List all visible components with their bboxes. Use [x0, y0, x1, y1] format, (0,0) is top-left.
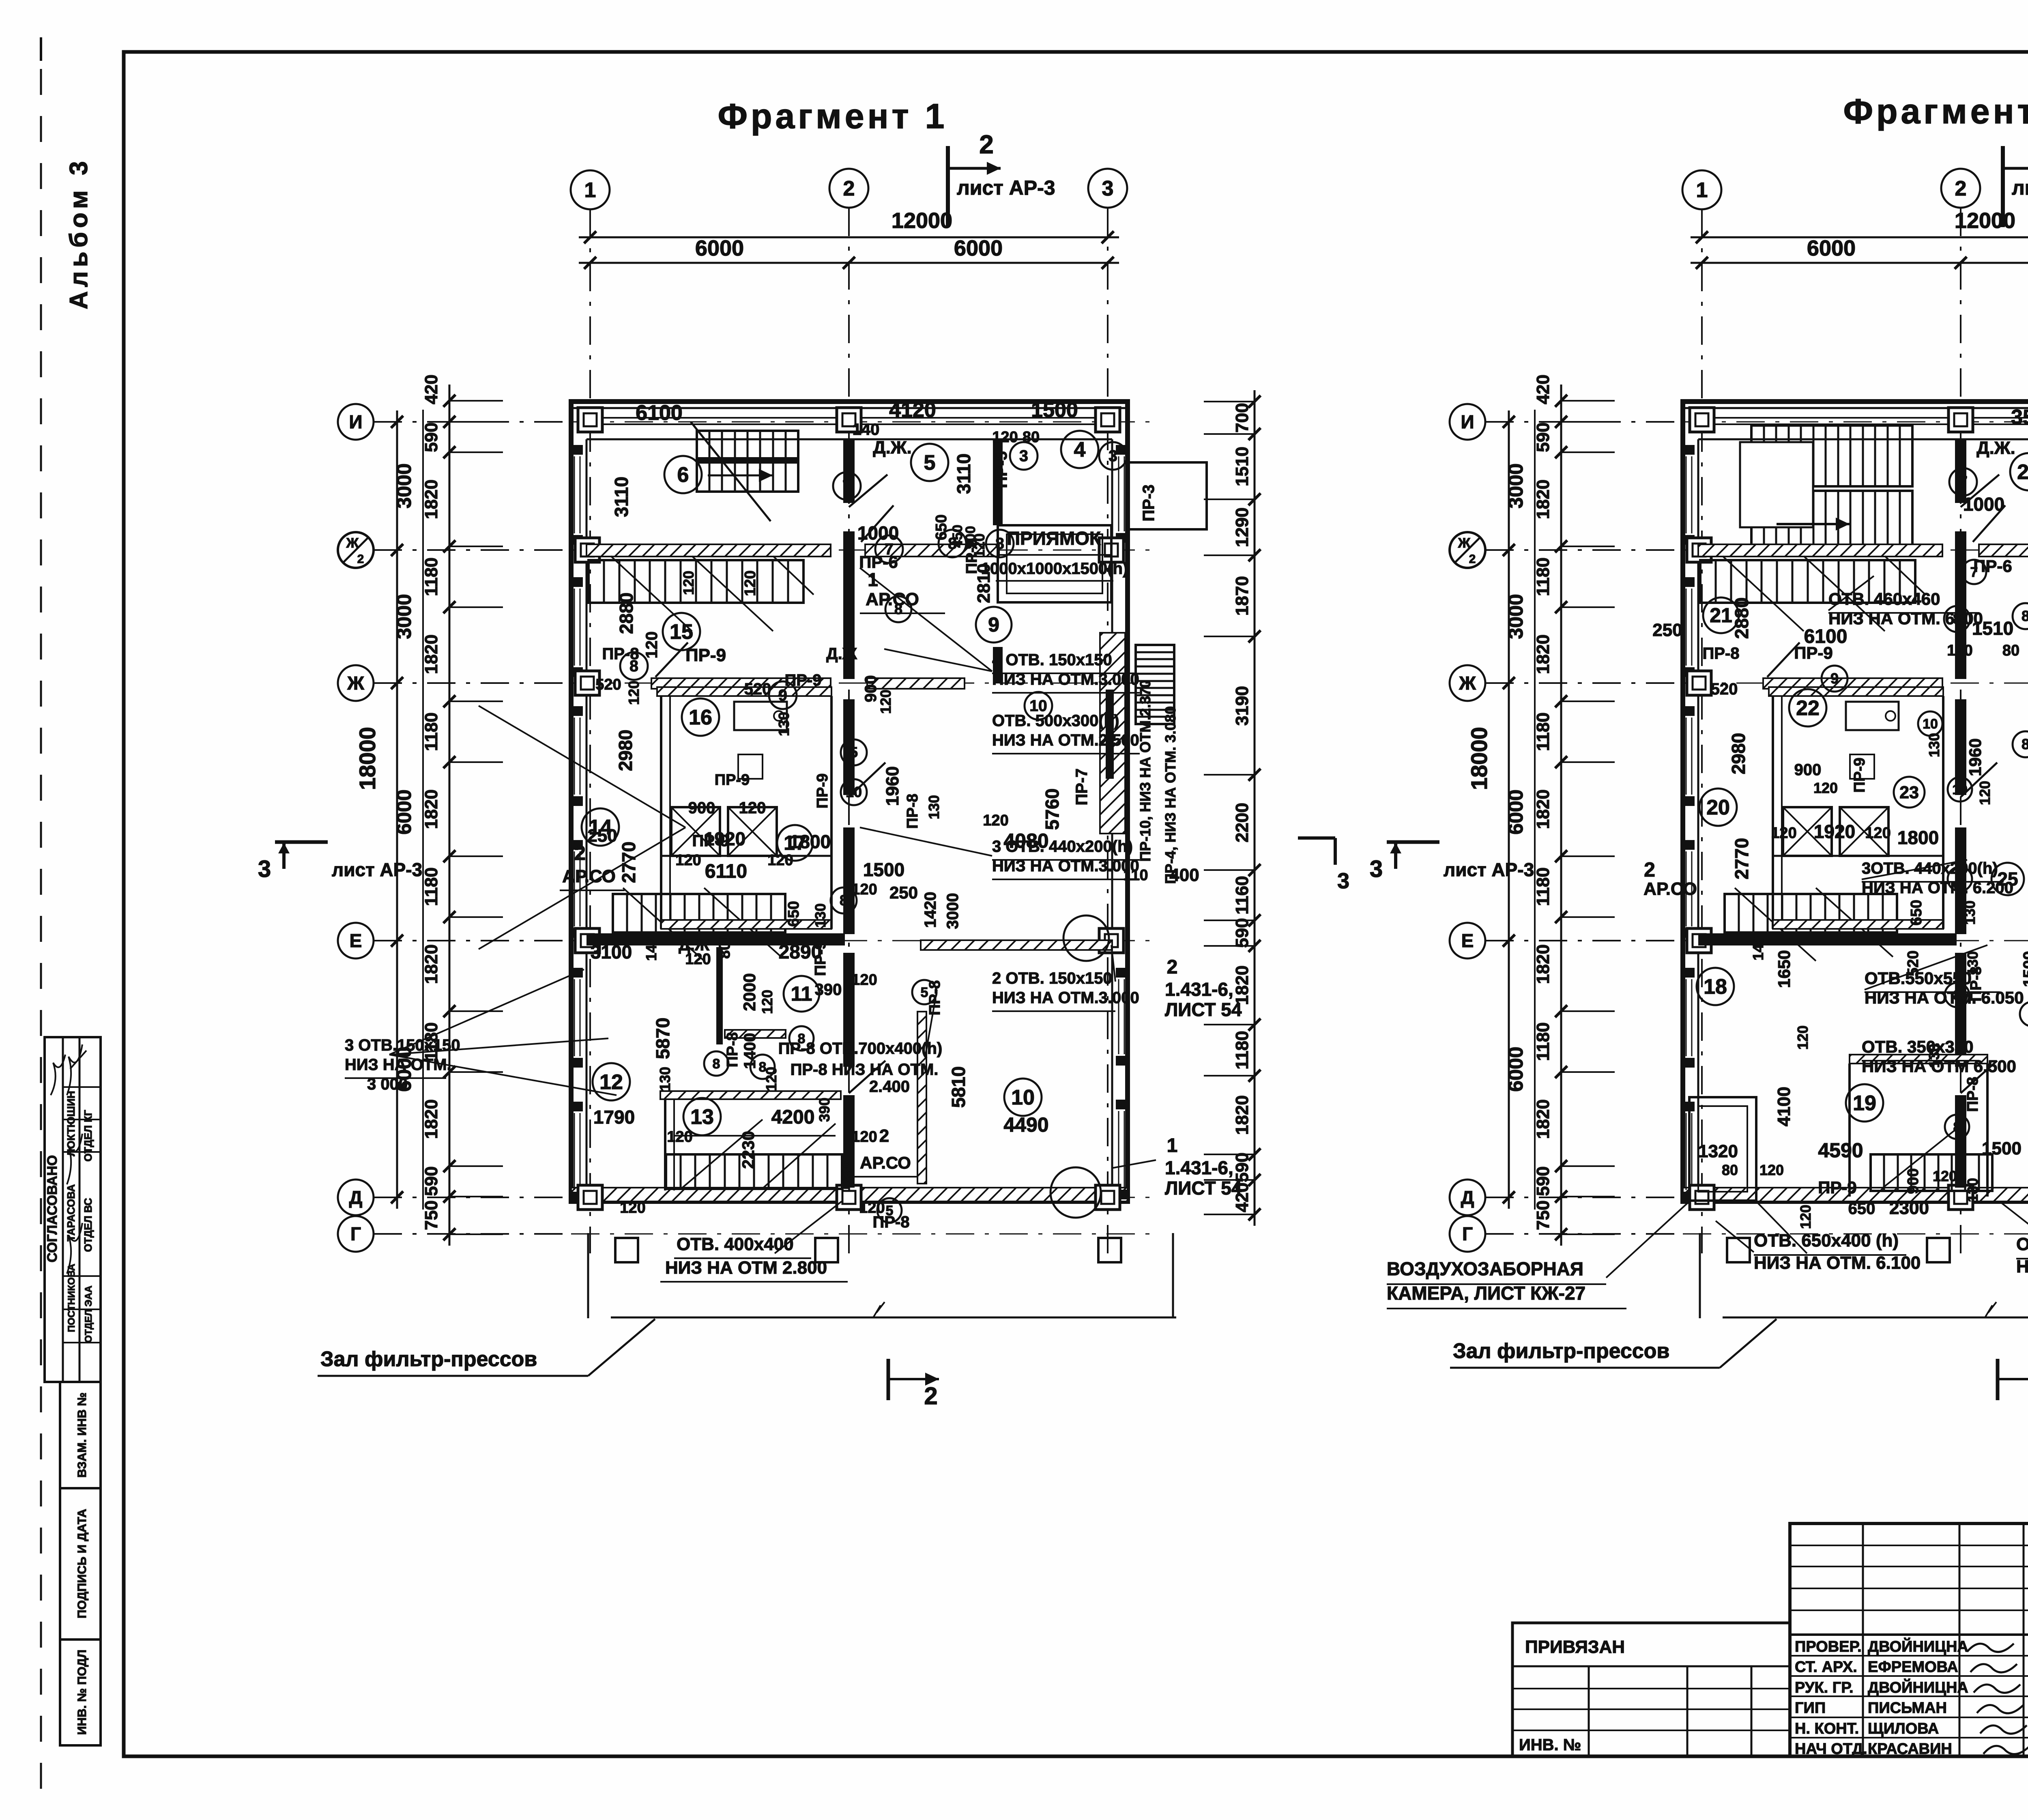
svg-text:8: 8	[713, 1056, 720, 1072]
svg-text:ЕФРЕМОВА: ЕФРЕМОВА	[1868, 1659, 1958, 1676]
room 10 left hatched wall	[917, 1012, 926, 1184]
svg-text:1960: 1960	[1966, 738, 1985, 776]
svg-text:590: 590	[1533, 422, 1553, 452]
svg-text:Ж: Ж	[1458, 535, 1471, 551]
svg-text:590: 590	[421, 422, 441, 452]
svg-text:Г: Г	[1462, 1223, 1473, 1244]
ladder boundary line	[1534, 410, 1536, 1210]
staircase at row Е	[613, 894, 785, 933]
underlines for notes fragment 1	[992, 673, 1136, 674]
svg-text:9: 9	[988, 613, 999, 636]
svg-text:1820: 1820	[1533, 634, 1553, 674]
dimension 12000 (top)	[579, 236, 1119, 239]
svg-text:110: 110	[1123, 867, 1148, 884]
wall row Ж/2 right hatched	[1979, 544, 2028, 557]
svg-text:1870: 1870	[1232, 576, 1252, 616]
svg-text:2770: 2770	[618, 842, 639, 883]
svg-text:3: 3	[1337, 869, 1349, 893]
svg-text:НАЧ ОТД.: НАЧ ОТД.	[1795, 1740, 1867, 1758]
staircase top	[1751, 425, 1912, 486]
svg-text:14: 14	[589, 816, 612, 839]
svg-text:8: 8	[995, 535, 1004, 552]
dimension chain windows/piers (left)	[449, 410, 451, 1246]
grid row circle Д	[338, 1180, 374, 1215]
svg-text:ОТДЕЛ ВС: ОТДЕЛ ВС	[82, 1198, 94, 1252]
staircase at row Е	[1725, 894, 1897, 933]
svg-text:1160: 1160	[1232, 876, 1252, 914]
svg-text:1180: 1180	[421, 867, 441, 906]
svg-text:700: 700	[1232, 403, 1252, 432]
svg-text:250: 250	[889, 883, 918, 902]
svg-text:ПР-7: ПР-7	[1073, 769, 1091, 806]
signature squiggles	[51, 1055, 65, 1095]
sanitary fixture	[734, 702, 787, 730]
title block upper rows (left)	[1790, 1545, 2028, 1546]
svg-text:ПР-3: ПР-3	[1140, 485, 1158, 522]
wall right of room 8	[993, 439, 1003, 525]
canopy vertical stubs	[587, 1233, 589, 1318]
svg-text:1.431-6,: 1.431-6,	[1165, 1157, 1233, 1178]
svg-text:3000: 3000	[1504, 463, 1527, 508]
stamp box ВЗАМ. ИНВ №	[60, 1382, 101, 1488]
svg-text:3: 3	[1109, 447, 1117, 465]
svg-text:24: 24	[2017, 460, 2028, 484]
svg-text:Д.Ж: Д.Ж	[679, 936, 710, 954]
svg-text:140: 140	[643, 937, 660, 961]
dimension chain 3000/3000/6000/6000 (left)	[396, 410, 398, 1209]
title block name rows	[1790, 1655, 2028, 1657]
svg-text:420: 420	[421, 374, 441, 404]
svg-text:10: 10	[1923, 716, 1938, 732]
outer wall rectangle	[571, 402, 1128, 1201]
svg-text:3110: 3110	[611, 477, 632, 517]
leader lines fragment 1	[860, 568, 992, 671]
svg-text:120: 120	[1797, 1205, 1814, 1229]
svg-text:120: 120	[643, 632, 661, 659]
privyazan block	[1512, 1623, 1790, 1756]
svg-text:400: 400	[1169, 865, 1199, 885]
svg-text:130: 130	[1961, 900, 1978, 925]
svg-text:2: 2	[979, 130, 994, 159]
grid row line Е	[1683, 940, 2028, 941]
grid line 2 (dash-dot)	[1960, 208, 1961, 1253]
svg-text:1180: 1180	[1232, 1031, 1252, 1069]
svg-text:20: 20	[1706, 796, 1730, 819]
svg-text:18000: 18000	[354, 727, 380, 790]
svg-text:1820: 1820	[421, 634, 441, 674]
svg-text:2: 2	[357, 552, 364, 566]
svg-text:650: 650	[785, 901, 802, 926]
svg-text:ПР-8: ПР-8	[1964, 1077, 1981, 1112]
section marker 2 (top)	[2001, 146, 2005, 227]
grid circle 1	[1682, 170, 1721, 209]
svg-text:ПР-4, НИЗ НА ОТМ. 3.080: ПР-4, НИЗ НА ОТМ. 3.080	[1162, 706, 1179, 884]
svg-text:ПР-8: ПР-8	[1703, 645, 1740, 662]
svg-text:120: 120	[675, 852, 701, 869]
svg-text:И: И	[349, 411, 362, 432]
ventilation shafts with X	[671, 807, 720, 856]
svg-text:5810: 5810	[948, 1066, 969, 1108]
svg-text:650: 650	[1908, 900, 1925, 925]
svg-text:ПРОВЕР.: ПРОВЕР.	[1795, 1638, 1862, 1655]
svg-text:130: 130	[812, 903, 829, 928]
svg-text:4 ОТВ. 150х150: 4 ОТВ. 150х150	[992, 651, 1112, 669]
svg-text:5: 5	[924, 451, 936, 475]
svg-text:2770: 2770	[1731, 838, 1752, 879]
svg-text:1820: 1820	[421, 1099, 441, 1139]
svg-text:4120: 4120	[889, 398, 936, 422]
svg-text:2 ОТВ. 150х150: 2 ОТВ. 150х150	[992, 969, 1112, 987]
svg-text:10: 10	[1952, 782, 1968, 797]
svg-text:8: 8	[948, 535, 957, 552]
section marker 3 (left)	[1387, 840, 1439, 844]
svg-text:120: 120	[851, 971, 877, 988]
svg-text:4: 4	[1074, 438, 1086, 462]
svg-text:1290: 1290	[1232, 507, 1252, 547]
dimension chain windows/piers (left)	[1560, 410, 1562, 1246]
svg-text:140: 140	[1947, 642, 1972, 659]
svg-text:ТАРАСОВА: ТАРАСОВА	[65, 1184, 77, 1241]
svg-text:16: 16	[689, 706, 712, 729]
canopy line below plan	[1723, 1317, 2028, 1319]
svg-text:ОТДЕЛ КГ: ОТДЕЛ КГ	[82, 1110, 94, 1162]
door swings on grid-2 wall	[849, 475, 887, 507]
svg-text:1500: 1500	[1031, 398, 1078, 422]
svg-text:2200: 2200	[1232, 803, 1252, 842]
svg-text:120: 120	[739, 799, 766, 817]
grid row line И	[571, 421, 1152, 423]
svg-text:1: 1	[584, 178, 596, 202]
svg-text:5760: 5760	[1042, 789, 1063, 830]
svg-text:120: 120	[992, 429, 1018, 446]
svg-text:900: 900	[1794, 761, 1822, 779]
svg-text:140: 140	[1750, 936, 1766, 960]
door swings on grid-2 wall	[1961, 475, 1999, 507]
svg-text:3: 3	[1370, 856, 1383, 882]
fragment 1 room circles	[664, 456, 702, 493]
trim mark top-left	[40, 37, 42, 61]
svg-text:6000: 6000	[695, 236, 744, 260]
svg-text:1180: 1180	[1533, 712, 1553, 751]
svg-text:Д.Ж.: Д.Ж.	[1976, 438, 2015, 458]
svg-text:ЛИСТ 54: ЛИСТ 54	[1165, 999, 1242, 1020]
svg-text:19: 19	[1853, 1092, 1876, 1115]
outer wall inner face	[586, 438, 1112, 440]
canopy vertical stubs	[1699, 1233, 1701, 1318]
svg-text:2980: 2980	[615, 730, 636, 771]
svg-text:1,390: 1,390	[839, 1161, 853, 1191]
svg-text:1820: 1820	[1533, 1099, 1553, 1139]
svg-text:590: 590	[421, 1166, 441, 1196]
svg-text:ПОСТНИКОВА: ПОСТНИКОВА	[66, 1264, 77, 1332]
svg-text:ИНВ. №: ИНВ. №	[1519, 1736, 1581, 1754]
svg-text:80: 80	[2002, 642, 2019, 659]
svg-text:АР.СО: АР.СО	[860, 1153, 911, 1172]
svg-text:ВОЗДУХОЗАБОРНАЯ: ВОЗДУХОЗАБОРНАЯ	[1387, 1258, 1583, 1279]
svg-text:НИЗ НА ОТМ 2.800: НИЗ НА ОТМ 2.800	[665, 1258, 827, 1278]
svg-text:8: 8	[840, 892, 848, 909]
svg-text:7: 7	[842, 477, 851, 495]
svg-text:ПР-9: ПР-9	[715, 771, 750, 789]
svg-text:6100: 6100	[636, 401, 683, 425]
svg-text:ПР-9: ПР-9	[812, 941, 829, 976]
svg-text:6000: 6000	[1807, 236, 1856, 260]
ladder boundary line	[422, 410, 424, 1210]
svg-text:ОТВ. 350х350: ОТВ. 350х350	[1862, 1037, 1974, 1056]
svg-text:3500: 3500	[2011, 406, 2028, 429]
grid row circle Г	[1450, 1216, 1485, 1252]
svg-text:ПР-8: ПР-8	[904, 794, 921, 829]
vozdukhozaborna kamera box bottom-left	[1689, 1097, 1756, 1201]
external stair right	[1136, 645, 1174, 724]
window strips right wall	[1124, 456, 1125, 531]
svg-text:2.400: 2.400	[869, 1078, 910, 1096]
svg-text:900: 900	[688, 799, 715, 817]
svg-text:3100: 3100	[591, 941, 632, 963]
svg-text:520: 520	[1711, 680, 1738, 698]
svg-text:ГИП: ГИП	[1795, 1700, 1826, 1717]
svg-text:лист АР-3: лист АР-3	[1444, 859, 1534, 880]
section marker 3 (right)	[1298, 836, 1335, 840]
wall row Ж hatched	[651, 678, 831, 689]
svg-text:130: 130	[926, 795, 942, 819]
svg-text:ПРИВЯЗАН: ПРИВЯЗАН	[1525, 1637, 1625, 1657]
svg-text:8: 8	[894, 601, 902, 617]
svg-text:3 ОТВ. 440х200(h): 3 ОТВ. 440х200(h)	[992, 838, 1133, 855]
svg-text:120: 120	[742, 570, 759, 596]
svg-text:1.431-6,: 1.431-6,	[1165, 979, 1233, 1000]
svg-text:ПР-9: ПР-9	[785, 671, 822, 689]
svg-text:6110: 6110	[705, 861, 747, 882]
svg-text:НИЗ НА ОТМ. 6.000: НИЗ НА ОТМ. 6.000	[2016, 1257, 2028, 1276]
svg-text:СТ. АРХ.: СТ. АРХ.	[1795, 1659, 1857, 1676]
grid row line И	[1683, 421, 2028, 423]
svg-text:140: 140	[853, 421, 880, 438]
svg-text:7: 7	[885, 541, 894, 558]
svg-text:6: 6	[677, 463, 689, 487]
svg-text:3 ОТВ.150х150: 3 ОТВ.150х150	[345, 1036, 460, 1054]
svg-text:8: 8	[1956, 872, 1964, 887]
svg-text:590: 590	[1533, 1166, 1553, 1196]
grid line 1 (dash-dot)	[1701, 209, 1703, 1253]
svg-text:800: 800	[716, 933, 733, 958]
svg-text:Н. КОНТ.: Н. КОНТ.	[1795, 1720, 1859, 1737]
svg-text:5: 5	[886, 1203, 894, 1218]
svg-text:лист АР-3: лист АР-3	[2012, 176, 2028, 199]
dimension chain 3000/3000/6000/6000 (left)	[1508, 410, 1510, 1209]
svg-text:4200: 4200	[771, 1107, 815, 1128]
grid circle 2	[1941, 169, 1980, 208]
section marker 2 (bottom)	[1996, 1359, 2000, 1400]
grid line 2 (dash-dot)	[848, 208, 850, 1253]
svg-text:РУК. ГР.: РУК. ГР.	[1795, 1679, 1854, 1696]
detail circle at E-right corner	[1063, 915, 1109, 961]
svg-text:КАМЕРА, ЛИСТ КЖ-27: КАМЕРА, ЛИСТ КЖ-27	[1387, 1283, 1585, 1304]
dimensions 6000+6000 (top)	[579, 262, 1119, 264]
svg-text:АР.СО: АР.СО	[1643, 879, 1697, 899]
svg-text:120: 120	[877, 690, 894, 714]
svg-text:6000: 6000	[954, 236, 1003, 260]
svg-text:ИНВ. № ПОДЛ: ИНВ. № ПОДЛ	[75, 1650, 89, 1735]
wall row Е black band	[1698, 933, 1957, 945]
priyamok pit rectangle	[998, 525, 1111, 602]
svg-text:2000: 2000	[740, 973, 759, 1011]
svg-text:Зал фильтр-прессов: Зал фильтр-прессов	[320, 1347, 537, 1371]
svg-text:4100: 4100	[1774, 1087, 1794, 1126]
wall above room 10	[921, 940, 1112, 950]
svg-text:2: 2	[879, 1126, 889, 1146]
svg-text:1180: 1180	[421, 712, 441, 751]
window strips left wall	[1686, 456, 1687, 533]
external box top right (ПР-3)	[1128, 462, 1207, 529]
svg-text:750: 750	[1533, 1200, 1553, 1230]
svg-text:8: 8	[629, 658, 638, 675]
staircase at row Ж/2	[1700, 560, 1915, 603]
svg-text:6000: 6000	[393, 789, 415, 834]
canopy line below plan	[611, 1317, 1176, 1319]
svg-text:Е: Е	[1461, 930, 1474, 951]
svg-text:Д: Д	[1461, 1187, 1474, 1208]
grid row circle И	[1450, 404, 1485, 440]
perforation dashed line left	[40, 69, 42, 1801]
grid row line Д	[1683, 1197, 2028, 1198]
svg-text:520: 520	[744, 680, 771, 698]
svg-text:Д.Ж.: Д.Ж.	[873, 438, 912, 458]
svg-text:Д.Ж: Д.Ж	[826, 645, 857, 663]
svg-text:ЛИСТ 54: ЛИСТ 54	[1165, 1178, 1242, 1199]
svg-text:120: 120	[625, 681, 642, 705]
svg-text:120: 120	[1976, 781, 1993, 805]
outer wall rectangle	[1683, 402, 2028, 1201]
svg-text:3000: 3000	[944, 893, 962, 929]
svg-text:ОТВ. 460х460: ОТВ. 460х460	[1828, 589, 1940, 608]
section marker 3 (left)	[275, 840, 328, 844]
window lines top wall	[595, 417, 1103, 419]
wall row Е black band	[586, 933, 845, 945]
grid circle 2	[829, 169, 868, 208]
svg-text:4590: 4590	[1818, 1139, 1863, 1162]
leader lines fragment 2	[1828, 576, 1874, 610]
svg-text:2: 2	[1644, 858, 1655, 881]
svg-text:Г: Г	[350, 1223, 361, 1244]
footing pilasters below wall	[1727, 1238, 1750, 1262]
svg-text:ПР-9: ПР-9	[814, 774, 831, 808]
svg-text:10: 10	[1011, 1086, 1035, 1109]
bottom wall hatched	[1683, 1188, 2028, 1201]
svg-text:лист АР-3: лист АР-3	[332, 859, 422, 880]
svg-text:НИЗ НА ОТМ.3.000: НИЗ НА ОТМ.3.000	[992, 989, 1139, 1007]
svg-text:23: 23	[1899, 783, 1919, 802]
dimension chain (right)	[1254, 390, 1256, 1226]
window lines top wall	[1707, 417, 2028, 419]
svg-text:1820: 1820	[1533, 944, 1553, 984]
room 13/19 walls	[718, 947, 721, 1037]
svg-text:4490: 4490	[1003, 1113, 1048, 1136]
wall at row Ж/2 hatched	[1698, 544, 1942, 557]
underlines for notes fragment 2	[1754, 1254, 1906, 1256]
window strips left wall	[574, 456, 575, 533]
grid row line Е	[571, 940, 1152, 941]
svg-text:7: 7	[1970, 565, 1978, 580]
svg-text:130: 130	[776, 712, 792, 736]
svg-text:АР.СО: АР.СО	[562, 866, 616, 886]
grid row line Ж	[571, 683, 1152, 684]
svg-text:2230: 2230	[739, 1131, 758, 1169]
svg-text:Альбом 3: Альбом 3	[65, 157, 93, 309]
svg-text:ПР-9: ПР-9	[1851, 758, 1868, 793]
staircase at row Ж/2	[589, 560, 803, 603]
svg-text:25: 25	[1997, 868, 2018, 890]
ventilation shafts with X	[1783, 807, 1832, 856]
section marker 2 (bottom)	[887, 1359, 890, 1400]
svg-text:1000: 1000	[1963, 494, 2004, 515]
svg-text:ЛОКТЮШИН: ЛОКТЮШИН	[65, 1091, 77, 1156]
svg-text:12000: 12000	[892, 208, 952, 233]
svg-text:1180: 1180	[1533, 1022, 1553, 1061]
svg-text:СОГЛАСОВАНО: СОГЛАСОВАНО	[45, 1155, 60, 1263]
svg-text:1500: 1500	[2020, 951, 2028, 987]
staircase top	[697, 431, 798, 460]
svg-text:120: 120	[759, 990, 776, 1014]
svg-text:2: 2	[843, 177, 855, 200]
svg-text:120: 120	[1865, 825, 1891, 842]
grid row line Ж	[1683, 550, 2028, 551]
svg-text:НИЗ НА ОТМ.2.500: НИЗ НА ОТМ.2.500	[992, 731, 1139, 749]
svg-text:ПР-9: ПР-9	[1794, 643, 1833, 662]
svg-text:8: 8	[2022, 736, 2028, 752]
svg-text:120: 120	[1813, 780, 1838, 796]
grid row circle Г	[338, 1216, 374, 1252]
svg-text:ОТВ. 600х600: ОТВ. 600х600	[2016, 1234, 2028, 1254]
svg-text:3: 3	[1019, 447, 1028, 465]
svg-text:ПР-8 НИЗ НА ОТМ.: ПР-8 НИЗ НА ОТМ.	[791, 1061, 939, 1079]
svg-text:120: 120	[851, 1128, 877, 1145]
svg-text:ДВОЙНИЦНА: ДВОЙНИЦНА	[1868, 1637, 1968, 1655]
svg-text:1500: 1500	[863, 859, 904, 880]
pilaster squares	[1690, 408, 1714, 432]
svg-text:1: 1	[1167, 1135, 1178, 1156]
svg-text:1820: 1820	[421, 789, 441, 829]
svg-text:ЩИЛОВА: ЩИЛОВА	[1868, 1720, 1939, 1737]
svg-text:12: 12	[599, 1070, 623, 1094]
svg-text:3000: 3000	[393, 594, 415, 639]
svg-text:Е: Е	[350, 930, 362, 951]
svg-text:ПР-6: ПР-6	[1973, 557, 2012, 576]
svg-text:120: 120	[1933, 1168, 1957, 1184]
svg-text:3000: 3000	[393, 463, 415, 508]
svg-text:120: 120	[1759, 1162, 1784, 1178]
svg-text:6000: 6000	[1504, 789, 1527, 834]
svg-text:420: 420	[1533, 374, 1553, 404]
svg-text:120: 120	[983, 812, 1008, 829]
svg-text:лист АР-3: лист АР-3	[957, 176, 1055, 199]
svg-text:И: И	[1461, 411, 1474, 432]
svg-text:390: 390	[816, 1098, 833, 1122]
svg-text:22: 22	[1796, 696, 1820, 720]
svg-text:130: 130	[1964, 1178, 1981, 1202]
svg-text:1180: 1180	[421, 557, 441, 596]
title block outer	[1790, 1523, 2028, 1756]
svg-text:1500: 1500	[1982, 1139, 2022, 1158]
svg-text:Ж: Ж	[347, 673, 364, 694]
svg-text:8: 8	[1953, 610, 1961, 627]
svg-text:650: 650	[1848, 1200, 1875, 1218]
grid row circle Е	[338, 923, 374, 958]
svg-text:Фрагмент 1: Фрагмент 1	[718, 97, 948, 136]
grid row line Ж	[571, 550, 1152, 551]
svg-text:2: 2	[1469, 552, 1476, 566]
svg-text:1920: 1920	[704, 828, 745, 849]
